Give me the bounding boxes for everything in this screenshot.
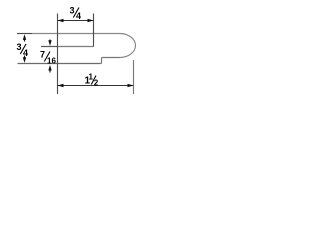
svg-text:3: 3 [17, 42, 22, 52]
dimension line 1-1/2 bottom [58, 85, 134, 87]
bottom dim left arrowhead [58, 84, 64, 87]
7/16 up arrow [49, 70, 51, 73]
svg-text:4: 4 [23, 48, 28, 58]
label 3/4 top [70, 6, 82, 22]
svg-text:3: 3 [70, 6, 75, 16]
background [0, 0, 150, 104]
profile bottom edge / extension line [18, 63, 101, 65]
svg-text:2: 2 [94, 79, 99, 88]
label 7/16 [40, 50, 56, 66]
svg-text:7: 7 [40, 50, 45, 60]
top dim right arrowhead [88, 19, 94, 22]
7/16 down arrow [49, 40, 51, 42]
middle extension line [93, 14, 95, 47]
left 3/4 up arrow [24, 39, 26, 42]
label 3/4 left [17, 42, 29, 58]
svg-text:1: 1 [89, 73, 94, 82]
bullnose arc [120, 34, 136, 58]
right extension line [133, 60, 135, 94]
left 3/4 down arrow [24, 56, 26, 59]
left extension line [57, 14, 59, 95]
svg-text:4: 4 [76, 11, 81, 21]
bottom step and nose underside [101, 58, 120, 64]
svg-text:16: 16 [47, 57, 56, 66]
bottom dim right arrowhead [128, 84, 134, 87]
label 1-1/2 [85, 73, 99, 88]
profile top edge / extension line [17, 33, 32, 35]
rabbet step line [41, 46, 58, 48]
dimension line 3/4 top [58, 20, 94, 22]
top dim left arrowhead [58, 19, 64, 22]
